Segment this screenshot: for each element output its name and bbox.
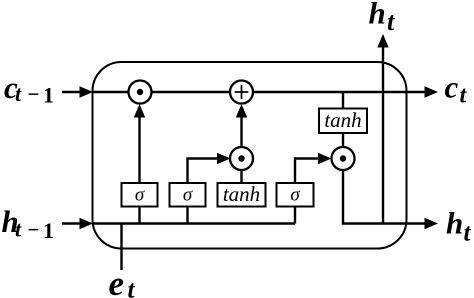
wire: sigma3 down connector [294, 206, 296, 224]
svg-text:1: 1 [43, 83, 54, 108]
label h_t-1 [2, 204, 55, 243]
svg-text:t: t [387, 7, 395, 36]
wire: c line to output tanh [342, 92, 344, 109]
wire: mult2 to add with arrow [236, 104, 247, 147]
wire: c_t-1 input arrow [62, 86, 93, 97]
wire: output tanh to mult3 [342, 133, 344, 148]
svg-text:h: h [446, 206, 463, 241]
label e_t [109, 264, 136, 298]
svg-text:h: h [369, 0, 386, 31]
svg-text:t: t [464, 220, 472, 247]
svg-text:1: 1 [43, 218, 54, 243]
svg-text:σ: σ [135, 185, 145, 206]
wire: c output with arrow to c_t [253, 86, 438, 97]
wire: sigma2 down connector [186, 206, 188, 224]
svg-text:tanh: tanh [324, 108, 361, 132]
gate tanh (candidate) [218, 182, 266, 207]
wire: c line left segment [92, 91, 129, 93]
wire: h_t upward branch with arrow [377, 34, 388, 224]
svg-text:t: t [15, 81, 22, 106]
gate sigma2 (input gate) [170, 183, 206, 207]
gate sigma1 (forget gate) [122, 183, 158, 207]
svg-text:σ: σ [183, 185, 193, 206]
wire: concatenated h/e line [92, 222, 295, 224]
label c_t-1 [4, 70, 54, 108]
label c_t [445, 70, 468, 109]
wire: sigma1 to mult1 with arrow [134, 104, 145, 183]
svg-text:−: − [28, 218, 40, 242]
wire: sigma3 to mult3 with arrow [295, 153, 332, 183]
svg-text:c: c [445, 70, 459, 105]
svg-text:t: t [15, 217, 22, 242]
gate tanh (output squash) [319, 108, 367, 133]
label h_t (top) [369, 0, 396, 36]
label h_t (right) [446, 206, 472, 247]
multiply node (output) [332, 147, 355, 170]
wire: sigma1 down connector [138, 206, 140, 224]
multiply node (forget) [129, 81, 152, 104]
svg-text:t: t [460, 83, 468, 109]
svg-text:t: t [128, 277, 136, 298]
svg-text:−: − [28, 82, 40, 106]
wire: sigma2 to mult2 with arrow [188, 153, 231, 183]
wire: h output from mult3 with arrow [343, 170, 438, 229]
wire: h_t-1 input arrow [62, 218, 93, 229]
LSTM cell body [93, 62, 407, 249]
svg-text:σ: σ [290, 185, 300, 206]
svg-text:e: e [109, 264, 125, 298]
add node [230, 81, 253, 104]
multiply node (input) [230, 147, 253, 170]
svg-text:tanh: tanh [223, 182, 260, 206]
wire: c line middle segment [151, 91, 230, 93]
wire: tanh gate up connector [240, 169, 242, 183]
gate sigma3 (output gate) [277, 183, 314, 207]
wire: e_t input [120, 223, 122, 271]
